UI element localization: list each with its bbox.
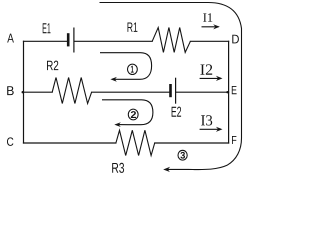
wire: resistor R3 to node F <box>155 142 229 144</box>
battery E2: long thin positive plate <box>175 78 176 104</box>
resistor R1 <box>152 28 190 53</box>
battery E1: short thick negative plate <box>67 33 70 46</box>
loop arrow 2 (mesh B-E-F-C, clockwise hook) <box>102 100 153 127</box>
wire: battery E2 to node E <box>176 91 228 93</box>
junction dot at node E <box>226 91 228 93</box>
node C <box>7 137 13 146</box>
loop label 3: circle <box>178 150 187 160</box>
label I3 <box>201 115 212 125</box>
digit 3 of loop label 3 <box>180 152 185 159</box>
loop label 1: circle <box>127 64 137 74</box>
label R1 <box>128 23 138 32</box>
node F <box>232 136 236 144</box>
wire: node B to resistor R2 <box>24 91 53 93</box>
digit 2 of loop label 2 <box>131 111 136 118</box>
current arrow I1 <box>202 24 220 29</box>
loop arrow 1 (mesh A-D-E-B, clockwise hook) <box>100 53 152 82</box>
resistor R2 <box>52 78 91 104</box>
label R3 <box>112 163 124 173</box>
label E2 <box>172 107 182 117</box>
resistor R3 <box>116 130 155 155</box>
node A <box>7 34 14 43</box>
battery E2: short thick negative plate <box>169 84 172 97</box>
current arrow I3 <box>200 127 223 132</box>
digit 1 of loop label 1 <box>131 66 134 73</box>
node D <box>232 35 239 44</box>
current arrow I2 <box>200 76 223 81</box>
wire: resistor R2 to battery E2 <box>92 91 170 93</box>
label I2 <box>200 64 212 74</box>
node B <box>7 86 14 95</box>
junction dot at node B <box>22 91 24 93</box>
loop label 2: circle <box>128 109 138 120</box>
wire: left vertical A-B-C <box>23 41 25 143</box>
node E <box>232 86 237 94</box>
wire: resistor R1 to node D <box>190 40 228 42</box>
wire: battery E1 to resistor R1 <box>75 40 153 42</box>
battery E1: long thin positive plate <box>73 28 74 53</box>
label I1 <box>203 13 212 21</box>
wire: node C to resistor R3 <box>24 142 116 144</box>
wire: top, node A to battery E1 <box>24 40 67 42</box>
label R2 <box>47 61 58 71</box>
loop arrow 3 (outer loop A-D-F-C, sweeps around right side) <box>100 3 242 173</box>
label E1 <box>43 23 51 33</box>
wire: right vertical D-E-F <box>228 41 230 143</box>
